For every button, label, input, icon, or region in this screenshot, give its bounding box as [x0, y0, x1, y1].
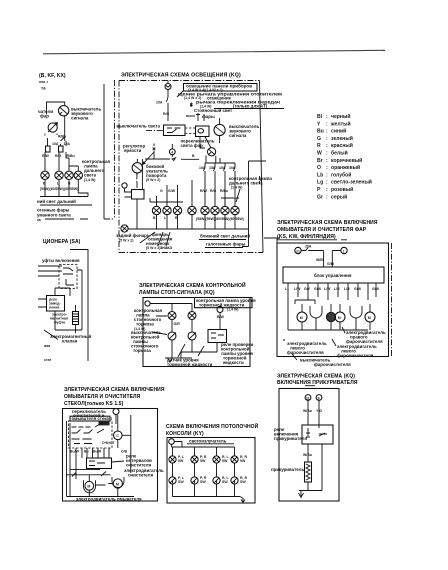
fuse F2 10A	[59, 146, 64, 152]
svg-text:Gr: Gr	[317, 194, 323, 200]
svg-text:5W: 5W	[178, 459, 184, 463]
svg-text:Y/G: Y/G	[316, 409, 322, 413]
svg-text:(1,4 W): (1,4 W)	[227, 308, 238, 312]
horn switch S2	[214, 124, 225, 135]
svg-text:9: 9	[318, 396, 320, 400]
svg-text:W/Bu: W/Bu	[303, 409, 312, 413]
svg-text:10А: 10А	[156, 101, 163, 105]
svg-text:очистителя: очистителя	[126, 463, 151, 468]
svg-text:задний фонарь: задний фонарь	[116, 233, 150, 238]
svg-text:о: о	[283, 338, 285, 342]
motor M2	[335, 312, 345, 322]
svg-text:SW: SW	[222, 480, 228, 484]
fuse circle top	[113, 409, 119, 415]
svg-text:P: P	[317, 187, 321, 193]
svg-text:4: 4	[171, 150, 173, 154]
svg-text:желтый: желтый	[330, 120, 351, 127]
svg-text:ЭЛЕКТРИЧЕСКАЯ СХЕМА ВКЛЮЧЕНИ: ЭЛЕКТРИЧЕСКАЯ СХЕМА ВКЛЮЧЕНИЯ	[64, 387, 165, 393]
svg-text:электродвигатель омывателя: электродвигатель омывателя	[76, 497, 142, 502]
svg-text:М: М	[368, 316, 371, 320]
svg-text:R: R	[68, 182, 71, 186]
svg-text::: :	[326, 194, 328, 200]
svg-text:жка: жка	[43, 344, 50, 348]
switch G5	[169, 477, 176, 484]
svg-text:L/W: L/W	[294, 287, 301, 291]
lamp G4	[231, 456, 238, 463]
svg-text:ОЧИСТ: ОЧИСТ	[102, 441, 115, 445]
wire feeders	[48, 116, 67, 146]
svg-text:Стояночный свет: Стояночный свет	[194, 108, 233, 113]
svg-text::: :	[326, 180, 328, 186]
svg-text:ка: ка	[37, 218, 41, 222]
lamp G2	[191, 456, 198, 463]
wires to ground	[299, 482, 322, 491]
svg-text:10А: 10А	[52, 142, 59, 146]
lamp row: low beam L	[201, 206, 209, 214]
ground bus	[128, 229, 249, 247]
connector node	[122, 183, 127, 188]
svg-text:5W: 5W	[200, 459, 206, 463]
wires to lamps	[45, 152, 78, 171]
regulator box	[132, 190, 145, 200]
svg-text:черный: черный	[331, 113, 350, 120]
svg-text:Bu/R: Bu/R	[93, 450, 102, 454]
svg-text:ОМЫВАТЕЛЯ И ОЧИСТИТЕЛЯ: ОМЫВАТЕЛЯ И ОЧИСТИТЕЛЯ	[64, 394, 141, 400]
switch G8	[231, 477, 238, 484]
lamp row: high beam R	[231, 206, 239, 214]
control unit box	[283, 267, 384, 283]
svg-text:галогенные фары: галогенные фары	[206, 242, 246, 247]
svg-text:фароочистителя: фароочистителя	[314, 362, 351, 367]
svg-text:B: B	[192, 154, 195, 158]
svg-text:выкл: выкл	[186, 114, 195, 118]
svg-text:G/W: G/W	[314, 287, 322, 291]
svg-text:тормозной жидкости: тормозной жидкости	[167, 362, 213, 367]
svg-text:М: М	[116, 482, 119, 486]
svg-text:Lb: Lb	[317, 172, 323, 178]
lamp L1	[41, 171, 49, 179]
lamp row: tail lamp	[152, 206, 160, 214]
svg-text:та: та	[41, 86, 46, 91]
svg-text:W/Bu: W/Bu	[303, 453, 312, 457]
column wires	[67, 421, 110, 497]
lamp row: low beam R	[211, 206, 219, 214]
cross wires above washer motor	[67, 469, 111, 476]
frame	[167, 438, 255, 504]
relay box	[302, 425, 333, 444]
svg-text:ВКЛЮЧЕНИЯ ПРИКУРИВАТЕЛЯ: ВКЛЮЧЕНИЯ ПРИКУРИВАТЕЛЯ	[277, 380, 358, 386]
svg-text:11: 11	[306, 396, 310, 400]
svg-text:фар: фар	[40, 114, 49, 119]
svg-text:R/Bu: R/Bu	[220, 189, 228, 193]
svg-text:W/Bl: W/Bl	[316, 258, 324, 262]
fuse circle 21	[295, 247, 301, 253]
svg-text:прикуривателя: прикуривателя	[274, 436, 307, 441]
svg-text:G/W: G/W	[354, 287, 362, 291]
svg-text:10А: 10А	[64, 142, 71, 146]
svg-text:(55W)(55W)(60/55W)(60/55W): (55W)(55W)(60/55W)(60/55W)	[196, 217, 244, 221]
motor M3 right	[365, 312, 375, 322]
pump dark	[326, 312, 335, 321]
svg-text:ний свет дальний: ний свет дальний	[37, 199, 76, 204]
circle node 4	[169, 149, 175, 155]
clutch coil	[73, 312, 79, 325]
svg-text:R/G: R/G	[163, 112, 170, 116]
svg-text:(5 W х 2): (5 W х 2)	[146, 246, 160, 250]
svg-text:B/W: B/W	[217, 315, 225, 319]
svg-text:G/W: G/W	[168, 189, 176, 193]
svg-text:R: R	[317, 143, 321, 149]
wire relay to resistor	[308, 444, 322, 491]
lighter heater resistor	[305, 462, 312, 482]
svg-text:R/G: R/G	[55, 154, 62, 158]
svg-text:(1,4 W): (1,4 W)	[84, 178, 95, 182]
svg-text:ЭЛЕКТРИЧЕСКАЯ СХЕМА (KQ): ЭЛЕКТРИЧЕСКАЯ СХЕМА (KQ)	[277, 374, 355, 380]
fuse node right	[217, 307, 223, 313]
ground bus	[40, 193, 88, 197]
svg-text:света: света	[84, 173, 97, 178]
wire from fuse down	[167, 90, 169, 122]
svg-text:L/B: L/B	[344, 287, 350, 291]
svg-text:Bu: Bu	[84, 450, 89, 454]
column wires	[173, 447, 235, 497]
svg-text:Bu/W: Bu/W	[70, 450, 80, 454]
fuse circle	[169, 439, 175, 445]
svg-text:тормоза: тормоза	[133, 348, 151, 353]
svg-text:фароомывателя: фароомывателя	[337, 353, 374, 358]
wires below control unit	[288, 283, 376, 300]
switch parking brake	[168, 332, 176, 340]
svg-text:ЭЛЕКТРИЧЕСКАЯ СХЕМА КОНТРОЛЬ: ЭЛЕКТРИЧЕСКАЯ СХЕМА КОНТРОЛЬНОЙ	[139, 281, 246, 289]
switch G6	[191, 477, 198, 484]
svg-text:с: с	[44, 133, 46, 137]
svg-text:голубой: голубой	[331, 171, 351, 178]
svg-text:КОНСОЛИ (KY): КОНСОЛИ (KY)	[166, 431, 204, 437]
wire right border	[103, 84, 105, 219]
wires to ground	[165, 340, 217, 358]
wires down to lamp row	[150, 175, 239, 206]
svg-text:коричневый: коричневый	[331, 157, 362, 164]
frame	[63, 409, 158, 502]
headlamp selector SW2	[196, 126, 210, 137]
svg-text::: :	[326, 121, 328, 127]
top rule	[43, 50, 385, 54]
svg-text:21: 21	[296, 249, 300, 253]
svg-text:G/Bl: G/Bl	[327, 262, 334, 266]
tail lamp big circle	[121, 225, 128, 232]
relay box	[208, 330, 227, 343]
svg-text::: :	[326, 143, 328, 149]
switch unit dashed box	[69, 421, 113, 448]
fuse on right border	[249, 161, 267, 229]
svg-text:5W: 5W	[222, 459, 228, 463]
svg-text:Bu: Bu	[317, 129, 324, 135]
fuse circle 11	[305, 395, 311, 401]
svg-text:розовый: розовый	[331, 186, 353, 193]
wiper crank left	[310, 306, 322, 328]
label panel illumination block	[184, 84, 258, 92]
label electromagnetic valve	[44, 330, 58, 340]
parking light symbol	[190, 103, 193, 108]
frame	[277, 243, 389, 357]
svg-text:ближний свет дальний: ближний свет дальний	[200, 234, 250, 239]
svg-text:яркости: яркости	[124, 148, 142, 153]
lamp row: licence lamp 1	[163, 206, 171, 214]
svg-text:В: В	[43, 182, 46, 186]
wires from fuses	[308, 400, 319, 428]
svg-text:SW: SW	[240, 480, 246, 484]
svg-text:уманного света: уманного света	[37, 213, 71, 218]
svg-text:омывателя стекол: омывателя стекол	[72, 416, 113, 421]
wire dash-dot frame right	[104, 80, 115, 219]
svg-text:SW: SW	[200, 480, 206, 484]
svg-text:жидкости: жидкости	[222, 360, 244, 365]
svg-text:очистителя: очистителя	[128, 473, 153, 478]
fuse node	[145, 301, 150, 306]
fuse 20A	[301, 248, 341, 268]
svg-text:В: В	[153, 216, 156, 220]
svg-text::: :	[326, 114, 328, 120]
svg-text:светло-зеленый: светло-зеленый	[331, 179, 372, 186]
wire to border	[70, 270, 82, 330]
svg-text:сигнала: сигнала	[229, 133, 247, 138]
motor C circle	[114, 431, 123, 440]
svg-text::: :	[326, 129, 328, 135]
svg-text:G: G	[160, 189, 163, 193]
wires lamps to bus	[157, 215, 236, 229]
svg-text:ЛАМПЫ СТОП-СИГНАЛА (KQ): ЛАМПЫ СТОП-СИГНАЛА (KQ)	[139, 290, 215, 296]
svg-text:ЦИОНЕРА (SA): ЦИОНЕРА (SA)	[43, 239, 81, 245]
svg-text:5W: 5W	[240, 459, 246, 463]
rotary switch S3	[208, 148, 216, 156]
fuse circle 1	[341, 247, 347, 253]
svg-text:(только для АТ): (только для АТ)	[233, 104, 268, 109]
svg-text:(5 W х 2): (5 W х 2)	[146, 178, 160, 182]
svg-text:(В, KF, KX): (В, KF, KX)	[39, 73, 66, 79]
svg-text:М: М	[87, 485, 90, 489]
svg-text:ления: ления	[49, 306, 59, 310]
side turn signal lamp	[132, 163, 142, 173]
lamp L2	[55, 171, 63, 179]
svg-text:L/W: L/W	[324, 287, 331, 291]
horn switch S1	[59, 106, 69, 116]
svg-text:светоизлучатель: светоизлучатель	[189, 439, 227, 444]
svg-text:ЭЛЕКТРИЧЕСКАЯ СХЕМА ОСВЕЩЕНИ: ЭЛЕКТРИЧЕСКАЯ СХЕМА ОСВЕЩЕНИЯ (KQ)	[121, 73, 241, 79]
svg-text::: :	[326, 172, 328, 178]
svg-text::: :	[326, 165, 328, 171]
svg-text:ЭЛЕКТРИЧЕСКАЯ СХЕМА ВКЛЮЧЕНИ: ЭЛЕКТРИЧЕСКАЯ СХЕМА ВКЛЮЧЕНИЯ	[277, 220, 378, 226]
svg-text:Lg: Lg	[317, 180, 323, 186]
svg-text:SW: SW	[178, 480, 184, 484]
bottom bus	[173, 497, 244, 499]
top bus	[172, 442, 235, 448]
svg-text:муфта: муфта	[54, 321, 65, 325]
svg-text:G: G	[317, 136, 321, 142]
label ВЫКЛ	[99, 421, 110, 425]
relay box	[87, 458, 112, 469]
svg-text:М: М	[338, 316, 341, 320]
svg-text:1: 1	[343, 249, 345, 253]
switch box dashed	[59, 265, 77, 289]
horn H1	[48, 123, 57, 132]
lamp parking indicator	[168, 312, 176, 320]
svg-text:L/R: L/R	[334, 287, 340, 291]
lamp row: licence lamp 2	[173, 206, 181, 214]
lamp fluid indicator	[188, 312, 196, 320]
svg-text:(1,4 W): (1,4 W)	[231, 186, 242, 190]
svg-text:G/Y: G/Y	[304, 287, 311, 291]
wiper motor M	[113, 479, 122, 488]
svg-text:ОМЫВАТЕЛЯ И ОЧИСТИТЕЛЯ ФАР: ОМЫВАТЕЛЯ И ОЧИСТИТЕЛЯ ФАР	[277, 227, 367, 233]
svg-text:выключатель света: выключатель света	[117, 124, 161, 129]
svg-text:20А: 20А	[305, 245, 312, 249]
svg-text:уфты включения: уфты включения	[42, 258, 80, 263]
svg-text:G/R: G/R	[174, 322, 181, 326]
wiper link left	[288, 300, 315, 304]
motor M1 left washer	[297, 312, 307, 322]
frame	[143, 298, 250, 367]
svg-text:Bl: Bl	[317, 114, 323, 120]
svg-text:(5 W х 2): (5 W х 2)	[119, 239, 133, 243]
lamp G3	[213, 456, 220, 463]
lamp L4 high-beam indicator	[74, 171, 82, 179]
lamp L3	[65, 171, 73, 179]
svg-text::: :	[326, 136, 328, 142]
svg-text:СТЕКОЛ(только KS 1.5): СТЕКОЛ(только KS 1.5)	[64, 401, 124, 407]
light switch SW1	[164, 125, 186, 136]
svg-text:блок управления: блок управления	[314, 273, 352, 278]
switch contacts	[72, 427, 93, 444]
svg-text:R/W: R/W	[200, 189, 208, 193]
lamp G1	[169, 456, 176, 463]
relay box	[47, 296, 65, 312]
svg-text:R/Bu: R/Bu	[58, 135, 66, 139]
bracket over right lamps	[221, 198, 239, 206]
wires lamps to bus	[45, 180, 78, 197]
wiper crank right	[350, 306, 362, 328]
wires lower	[55, 311, 82, 333]
svg-text:G/W: G/W	[372, 287, 380, 291]
fuse circle 9	[316, 395, 322, 401]
svg-text:тормоза: тормоза	[136, 322, 154, 327]
ground symbol	[168, 358, 173, 362]
svg-text::: :	[326, 151, 328, 157]
svg-text:R/G: R/G	[210, 189, 217, 193]
feeder wires	[38, 266, 62, 276]
wire stub right of frame	[264, 238, 280, 250]
lamp row: spare	[188, 206, 196, 214]
fuse F3	[167, 81, 169, 84]
svg-text::: :	[326, 187, 328, 193]
switch fluid level	[188, 332, 196, 340]
svg-text:L: L	[57, 182, 60, 186]
ground bus bottom	[67, 496, 135, 498]
svg-text:М: М	[300, 316, 303, 320]
svg-text:синий: синий	[331, 128, 346, 135]
svg-text:(KS, KW, ФИНЛЯНДИЯ): (KS, KW, ФИНЛЯНДИЯ)	[277, 234, 336, 240]
svg-text:С: С	[116, 434, 119, 438]
dimmer node	[145, 144, 176, 161]
svg-text:зеленый: зеленый	[331, 135, 353, 142]
wire top loop	[47, 102, 65, 115]
frame dash-dot border	[119, 81, 263, 253]
svg-text:оранжевый: оранжевый	[331, 164, 360, 171]
svg-text::: :	[326, 158, 328, 164]
svg-text:Br: Br	[317, 158, 323, 164]
ground arrow	[241, 499, 245, 503]
svg-text:прикуриватель: прикуриватель	[271, 467, 304, 472]
label brake fluid level lamp	[195, 298, 253, 308]
svg-text:СХЕМА ВКЛЮЧЕНИЯ ПОТОЛОЧНОЙ: СХЕМА ВКЛЮЧЕНИЯ ПОТОЛОЧНОЙ	[166, 422, 259, 430]
svg-text:сигнала: сигнала	[71, 116, 89, 121]
lamp row: high beam L	[221, 206, 229, 214]
svg-text:Y: Y	[317, 121, 321, 127]
svg-text:красный: красный	[331, 142, 353, 149]
frame right border	[70, 249, 88, 361]
svg-text:O: O	[317, 165, 321, 171]
ground arrow	[299, 491, 304, 498]
svg-text:серый: серый	[331, 193, 347, 200]
fuse F1 10A	[46, 146, 51, 152]
svg-text:W: W	[317, 151, 322, 157]
svg-text:R/W: R/W	[42, 154, 50, 158]
ground bus bottom	[288, 304, 370, 330]
switch G7	[213, 477, 220, 484]
washer motor M	[85, 481, 94, 490]
svg-text:стат: стат	[44, 358, 52, 362]
svg-text:клапан: клапан	[62, 339, 78, 344]
svg-text:R/Bu: R/Bu	[67, 154, 75, 158]
frame	[279, 389, 339, 502]
svg-text:белый: белый	[331, 150, 348, 157]
